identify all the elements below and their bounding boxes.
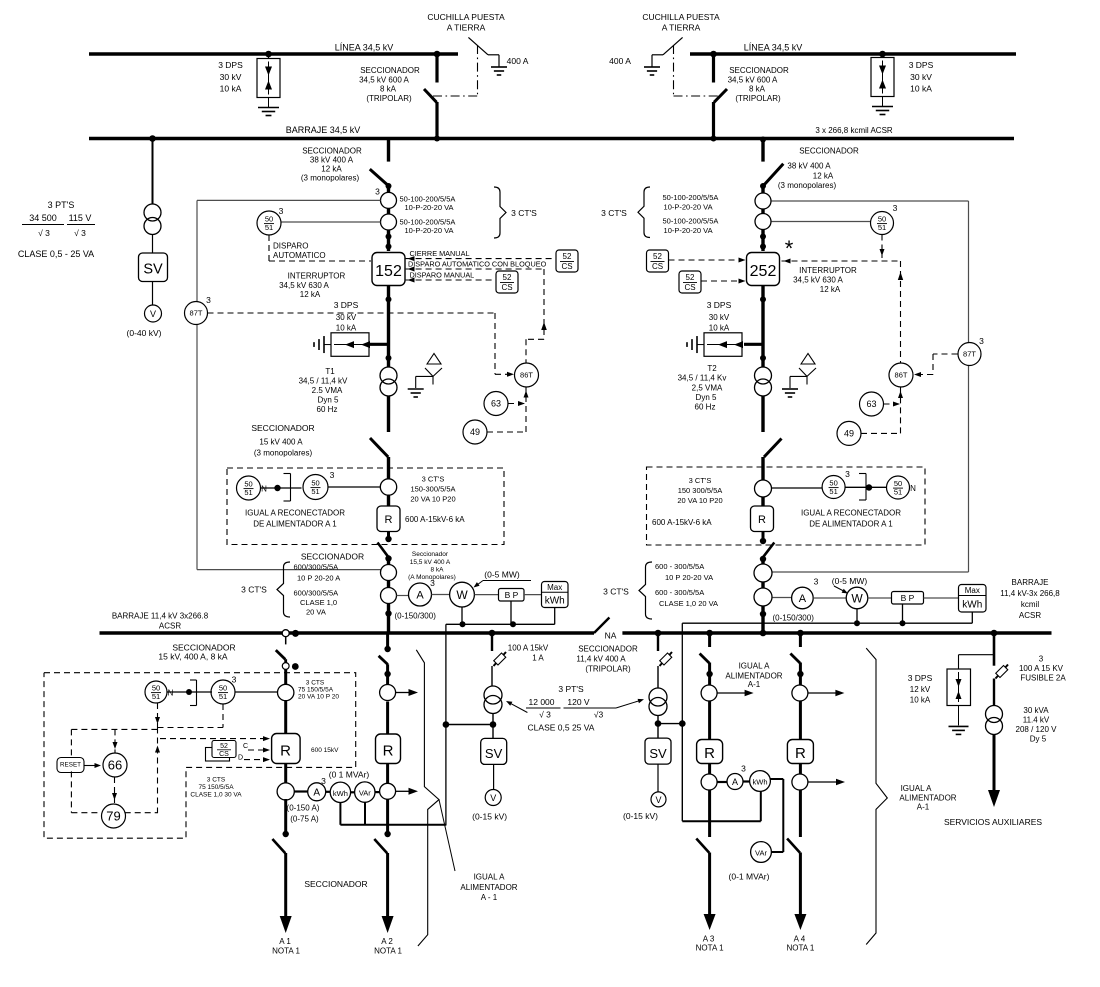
- svg-text:30 kV: 30 kV: [220, 72, 242, 82]
- svg-text:10 P 20-20 A: 10 P 20-20 A: [297, 574, 340, 583]
- svg-text:600 A-15kV-6 kA: 600 A-15kV-6 kA: [405, 515, 465, 524]
- svg-text:SECCIONADOR: SECCIONADOR: [578, 645, 638, 654]
- svg-text:R: R: [704, 745, 715, 762]
- svg-text:3: 3: [279, 206, 284, 216]
- svg-text:IGUAL A RECONECTADOR: IGUAL A RECONECTADOR: [245, 509, 345, 518]
- svg-text:66: 66: [108, 758, 122, 773]
- svg-text:kWh: kWh: [333, 789, 348, 798]
- svg-text:34,5 / 11,4 Kv: 34,5 / 11,4 Kv: [678, 374, 727, 383]
- svg-text:3 x 266,8 kcmil ACSR: 3 x 266,8 kcmil ACSR: [815, 126, 893, 135]
- svg-text:NOTA 1: NOTA 1: [272, 947, 300, 956]
- svg-text:CS: CS: [652, 262, 663, 271]
- svg-text:kWh: kWh: [753, 778, 768, 787]
- svg-text:3: 3: [375, 187, 380, 197]
- svg-text:60 Hz: 60 Hz: [695, 403, 716, 412]
- svg-text:SV: SV: [485, 746, 503, 761]
- svg-text:SECCIONADOR: SECCIONADOR: [799, 147, 859, 156]
- svg-text:N: N: [261, 485, 267, 494]
- svg-text:FUSIBLE 2A: FUSIBLE 2A: [1020, 674, 1066, 683]
- svg-text:NOTA 1: NOTA 1: [374, 947, 402, 956]
- svg-text:CLASE 0,5 25 VA: CLASE 0,5 25 VA: [528, 723, 595, 733]
- svg-text:120 V: 120 V: [567, 697, 590, 707]
- svg-text:600 15kV: 600 15kV: [311, 747, 339, 754]
- svg-text:(3 monopolares): (3 monopolares): [301, 174, 360, 183]
- svg-text:Max: Max: [965, 586, 980, 595]
- svg-text:252: 252: [750, 263, 777, 280]
- svg-text:86T: 86T: [520, 371, 533, 380]
- svg-text:600 - 300/5/5A: 600 - 300/5/5A: [655, 588, 704, 597]
- svg-text:3: 3: [321, 776, 326, 786]
- svg-text:3: 3: [1039, 655, 1044, 664]
- svg-text:CS: CS: [561, 262, 572, 271]
- svg-text:LÍNEA 34,5 kV: LÍNEA 34,5 kV: [744, 43, 803, 53]
- svg-text:3 PT'S: 3 PT'S: [48, 200, 75, 210]
- svg-text:3 DPS: 3 DPS: [707, 300, 732, 310]
- svg-text:10-P-20-20 VA: 10-P-20-20 VA: [405, 226, 454, 235]
- svg-text:3: 3: [330, 470, 335, 480]
- svg-text:R: R: [280, 743, 291, 760]
- svg-text:CLASE 1,0 20 VA: CLASE 1,0 20 VA: [659, 599, 718, 608]
- svg-text:(TRIPOLAR): (TRIPOLAR): [735, 94, 781, 103]
- svg-text:15,5 kV 400 A: 15,5 kV 400 A: [410, 559, 451, 566]
- svg-text:15 kV 400 A: 15 kV 400 A: [259, 438, 303, 447]
- svg-text:52: 52: [686, 273, 695, 282]
- svg-text:3 CT'S: 3 CT'S: [511, 208, 537, 218]
- svg-text:V: V: [655, 795, 661, 805]
- svg-text:(0-150/300): (0-150/300): [395, 612, 437, 621]
- svg-text:15 kV, 400 A, 8 kA: 15 kV, 400 A, 8 kA: [158, 652, 227, 662]
- svg-text:(TRIPOLAR): (TRIPOLAR): [366, 94, 412, 103]
- svg-text:kWh: kWh: [962, 600, 982, 611]
- svg-text:51: 51: [311, 487, 319, 496]
- svg-text:2.5 VMA: 2.5 VMA: [312, 386, 343, 395]
- svg-text:(0-150 A): (0-150 A): [287, 804, 320, 813]
- svg-text:RESET: RESET: [60, 762, 81, 769]
- svg-text:kcmil: kcmil: [1021, 600, 1039, 609]
- svg-text:75 150/5/5A: 75 150/5/5A: [198, 784, 234, 791]
- svg-text:V: V: [150, 309, 156, 319]
- svg-text:Dyn 5: Dyn 5: [318, 396, 339, 405]
- svg-text:10-P-20-20 VA: 10-P-20-20 VA: [405, 203, 454, 212]
- svg-text:79: 79: [106, 809, 120, 824]
- svg-text:CS: CS: [219, 751, 229, 758]
- svg-text:20 VA 10 P 20: 20 VA 10 P 20: [298, 694, 339, 701]
- svg-text:3 CT'S: 3 CT'S: [601, 208, 627, 218]
- svg-text:BARRAJE 11,4 kV 3x266.8: BARRAJE 11,4 kV 3x266.8: [112, 612, 209, 621]
- svg-text:115 V: 115 V: [69, 213, 92, 223]
- svg-text:VAr: VAr: [755, 849, 767, 858]
- svg-text:3 CTS: 3 CTS: [207, 777, 226, 784]
- svg-text:86T: 86T: [895, 371, 908, 380]
- svg-text:DE ALIMENTADOR A 1: DE ALIMENTADOR A 1: [253, 520, 337, 529]
- svg-text:DISPARO: DISPARO: [273, 242, 308, 251]
- svg-text:11,4 kV-3x 266,8: 11,4 kV-3x 266,8: [1000, 589, 1060, 598]
- svg-text:INTERRUPTOR: INTERRUPTOR: [288, 272, 346, 281]
- svg-text:IGUAL A: IGUAL A: [474, 873, 505, 882]
- svg-text:50-100-200/5/5A: 50-100-200/5/5A: [663, 217, 719, 226]
- svg-text:12 000: 12 000: [529, 697, 555, 707]
- svg-text:N: N: [168, 689, 174, 698]
- svg-text:AUTOMATICO: AUTOMATICO: [273, 251, 326, 260]
- svg-text:3 DPS: 3 DPS: [909, 60, 934, 70]
- svg-text:Dy 5: Dy 5: [1030, 735, 1047, 744]
- svg-text:52: 52: [563, 252, 572, 261]
- svg-text:51: 51: [244, 488, 252, 497]
- svg-text:D: D: [238, 755, 243, 762]
- svg-text:R: R: [795, 745, 806, 762]
- svg-text:34,5 / 11,4 kV: 34,5 / 11,4 kV: [299, 377, 348, 386]
- svg-text:CIERRE MANUAL: CIERRE MANUAL: [410, 249, 470, 258]
- svg-text:52: 52: [503, 273, 512, 282]
- svg-text:√3: √3: [594, 710, 604, 720]
- svg-text:2,5 VMA: 2,5 VMA: [692, 384, 723, 393]
- svg-text:51: 51: [894, 488, 902, 497]
- svg-text:INTERRUPTOR: INTERRUPTOR: [799, 266, 857, 275]
- svg-text:ALIMENTADOR: ALIMENTADOR: [460, 883, 517, 892]
- svg-text:3 CT'S: 3 CT'S: [241, 585, 267, 595]
- svg-text:SECCIONADOR: SECCIONADOR: [360, 66, 420, 75]
- svg-text:3: 3: [206, 295, 211, 305]
- svg-text:12 kV: 12 kV: [910, 685, 931, 694]
- svg-text:3: 3: [232, 675, 237, 685]
- svg-text:ACSR: ACSR: [1019, 611, 1041, 620]
- svg-text:(0-15 kV): (0-15 kV): [472, 812, 507, 822]
- svg-text:150 300/5/5A: 150 300/5/5A: [678, 486, 723, 495]
- svg-text:11.4 kV: 11.4 kV: [1023, 716, 1050, 725]
- svg-text:3: 3: [430, 578, 435, 588]
- svg-text:30 kV: 30 kV: [336, 313, 357, 322]
- svg-text:150-300/5/5A: 150-300/5/5A: [410, 485, 455, 494]
- svg-text:87T: 87T: [963, 350, 976, 359]
- svg-text:(0-1 MVAr): (0-1 MVAr): [729, 872, 770, 882]
- svg-text:R: R: [385, 514, 393, 526]
- svg-text:BARRAJE: BARRAJE: [1012, 578, 1049, 587]
- svg-text:63: 63: [866, 399, 876, 409]
- svg-text:A: A: [732, 777, 738, 787]
- svg-text:8 kA: 8 kA: [380, 85, 397, 94]
- svg-text:T2: T2: [707, 364, 717, 373]
- svg-text:49: 49: [470, 427, 480, 437]
- svg-text:A: A: [416, 590, 424, 602]
- svg-text:10-P-20-20 VA: 10-P-20-20 VA: [664, 203, 713, 212]
- svg-text:NOTA 1: NOTA 1: [696, 944, 724, 953]
- svg-text:3: 3: [893, 203, 898, 213]
- svg-text:8 kA: 8 kA: [749, 85, 766, 94]
- svg-text:10 kA: 10 kA: [910, 696, 931, 705]
- svg-text:(TRIPOLAR): (TRIPOLAR): [585, 665, 631, 674]
- svg-text:SECCIONADOR: SECCIONADOR: [729, 66, 789, 75]
- svg-text:10 kA: 10 kA: [910, 84, 932, 94]
- svg-text:600 - 300/5/5A: 600 - 300/5/5A: [655, 562, 704, 571]
- svg-text:SECCIONADOR: SECCIONADOR: [251, 423, 314, 433]
- svg-text:3 DPS: 3 DPS: [908, 673, 933, 683]
- svg-text:20 VA 10 P20: 20 VA 10 P20: [677, 496, 722, 505]
- svg-text:CUCHILLA PUESTA: CUCHILLA PUESTA: [642, 12, 720, 22]
- svg-text:IGUAL A: IGUAL A: [739, 662, 770, 671]
- svg-text:NA: NA: [605, 631, 617, 641]
- svg-text:(0-15 kV): (0-15 kV): [623, 811, 658, 821]
- svg-text:3 CT'S: 3 CT'S: [603, 587, 629, 597]
- svg-text:51: 51: [152, 692, 160, 701]
- svg-text:50-100-200/5/5A: 50-100-200/5/5A: [663, 193, 719, 202]
- svg-text:√ 3: √ 3: [74, 228, 86, 238]
- svg-text:20 VA: 20 VA: [306, 608, 326, 617]
- svg-text:34 500: 34 500: [29, 213, 57, 223]
- svg-text:A 1: A 1: [279, 937, 291, 946]
- svg-text:51: 51: [219, 692, 227, 701]
- svg-text:B P: B P: [505, 590, 519, 600]
- svg-text:A - 1: A - 1: [481, 893, 498, 902]
- svg-text:11,4 kV 400 A: 11,4 kV 400 A: [576, 655, 626, 664]
- svg-text:10 kA: 10 kA: [709, 324, 730, 333]
- svg-text:Dyn 5: Dyn 5: [696, 393, 717, 402]
- svg-text:W: W: [851, 592, 863, 606]
- svg-text:60 Hz: 60 Hz: [317, 405, 338, 414]
- svg-text:CLASE 1,0: CLASE 1,0: [300, 598, 337, 607]
- svg-text:IGUAL A RECONECTADOR: IGUAL A RECONECTADOR: [801, 509, 901, 518]
- svg-text:12 kA: 12 kA: [300, 290, 321, 299]
- svg-text:N: N: [910, 484, 916, 493]
- svg-text:SV: SV: [143, 262, 163, 278]
- svg-text:10 P 20-20 VA: 10 P 20-20 VA: [665, 573, 713, 582]
- svg-text:100 A 15 KV: 100 A 15 KV: [1019, 664, 1064, 673]
- svg-text:Seccionador: Seccionador: [412, 551, 449, 558]
- svg-text:√ 3: √ 3: [539, 710, 551, 720]
- svg-text:3: 3: [979, 336, 984, 346]
- svg-text:(0-5 MW): (0-5 MW): [832, 576, 868, 586]
- svg-text:51: 51: [878, 223, 886, 232]
- svg-text:100 A 15kV: 100 A 15kV: [508, 644, 549, 653]
- svg-text:ACSR: ACSR: [159, 622, 181, 631]
- svg-text:kWh: kWh: [545, 596, 565, 607]
- svg-text:A 3: A 3: [703, 935, 715, 944]
- svg-text:A-1: A-1: [748, 680, 761, 689]
- svg-text:W: W: [456, 588, 468, 602]
- svg-text:CS: CS: [684, 283, 695, 292]
- svg-text:CLASE 0,5 - 25 VA: CLASE 0,5 - 25 VA: [18, 249, 94, 259]
- svg-text:DISPARO MANUAL: DISPARO MANUAL: [410, 271, 475, 280]
- svg-text:V: V: [490, 793, 496, 803]
- svg-text:3 CTS: 3 CTS: [306, 680, 325, 687]
- svg-text:10-P-20-20 VA: 10-P-20-20 VA: [664, 226, 713, 235]
- svg-text:3 CT'S: 3 CT'S: [689, 476, 712, 485]
- svg-text:BARRAJE 34,5 kV: BARRAJE 34,5 kV: [286, 125, 361, 135]
- svg-text:600 A-15kV-6 kA: 600 A-15kV-6 kA: [652, 518, 712, 527]
- svg-text:12 kA: 12 kA: [321, 165, 342, 174]
- svg-text:208 / 120 V: 208 / 120 V: [1016, 725, 1058, 734]
- svg-text:Max: Max: [547, 583, 562, 592]
- svg-text:34,5 kV 600 A: 34,5 kV 600 A: [728, 76, 778, 85]
- svg-text:600/300/5/5A: 600/300/5/5A: [294, 563, 339, 572]
- svg-text:75 150/5/5A: 75 150/5/5A: [298, 687, 334, 694]
- svg-text:*: *: [785, 236, 794, 261]
- svg-text:R: R: [758, 514, 766, 526]
- svg-text:(0-40 kV): (0-40 kV): [127, 328, 162, 338]
- svg-text:LÍNEA 34,5 kV: LÍNEA 34,5 kV: [335, 43, 394, 53]
- svg-text:34,5 kV 630 A: 34,5 kV 630 A: [793, 276, 843, 285]
- svg-text:(0-75 A): (0-75 A): [290, 815, 319, 824]
- svg-text:CS: CS: [501, 283, 512, 292]
- svg-text:3 PT'S: 3 PT'S: [558, 684, 584, 694]
- svg-text:12 kA: 12 kA: [813, 172, 834, 181]
- svg-text:52: 52: [220, 743, 228, 750]
- svg-text:SECCIONADOR: SECCIONADOR: [304, 879, 367, 889]
- svg-text:A: A: [313, 788, 320, 799]
- svg-text:R: R: [383, 743, 394, 760]
- svg-text:3: 3: [814, 577, 819, 587]
- svg-text:A 4: A 4: [794, 935, 806, 944]
- svg-text:3 DPS: 3 DPS: [218, 60, 243, 70]
- svg-text:38 kV 400 A: 38 kV 400 A: [310, 156, 354, 165]
- svg-text:49: 49: [844, 429, 854, 439]
- svg-text:3 CT'S: 3 CT'S: [422, 475, 445, 484]
- svg-text:SERVICIOS AUXILIARES: SERVICIOS AUXILIARES: [944, 817, 1042, 827]
- svg-text:30 kVA: 30 kVA: [1023, 706, 1049, 715]
- svg-text:400 A: 400 A: [609, 56, 631, 66]
- svg-text:400 A: 400 A: [507, 56, 529, 66]
- svg-text:A TIERRA: A TIERRA: [662, 23, 701, 33]
- svg-text:A: A: [799, 593, 807, 605]
- svg-text:8 kA: 8 kA: [430, 567, 444, 574]
- svg-text:SECCIONADOR: SECCIONADOR: [301, 552, 364, 562]
- svg-text:(0 1 MVAr): (0 1 MVAr): [329, 770, 370, 780]
- svg-text:NOTA 1: NOTA 1: [786, 944, 814, 953]
- svg-text:30 kV: 30 kV: [910, 72, 932, 82]
- svg-text:38 kV 400 A: 38 kV 400 A: [787, 162, 831, 171]
- svg-text:A 2: A 2: [381, 937, 393, 946]
- svg-text:34,5 kV 630 A: 34,5 kV 630 A: [279, 281, 329, 290]
- svg-text:T1: T1: [325, 367, 335, 376]
- svg-text:87T: 87T: [190, 309, 203, 318]
- svg-text:30 kV: 30 kV: [709, 313, 730, 322]
- svg-text:SV: SV: [649, 746, 667, 761]
- svg-text:34,5 kV 600 A: 34,5 kV 600 A: [359, 76, 409, 85]
- svg-text:CLASE 1,0 30 VA: CLASE 1,0 30 VA: [190, 792, 242, 799]
- svg-text:600/300/5/5A: 600/300/5/5A: [294, 589, 339, 598]
- svg-text:(3 monopolares): (3 monopolares): [778, 181, 837, 190]
- svg-text:DISPARO AUTOMATICO CON BLOQUEO: DISPARO AUTOMATICO CON BLOQUEO: [408, 260, 547, 269]
- svg-text:3: 3: [741, 764, 746, 774]
- svg-text:IGUAL A: IGUAL A: [901, 784, 932, 793]
- svg-text:√ 3: √ 3: [38, 228, 50, 238]
- svg-text:10 kA: 10 kA: [336, 324, 357, 333]
- svg-text:12 kA: 12 kA: [820, 285, 841, 294]
- svg-text:B P: B P: [901, 593, 915, 603]
- svg-text:SECCIONADOR: SECCIONADOR: [302, 147, 362, 156]
- svg-text:1 A: 1 A: [532, 654, 544, 663]
- svg-text:63: 63: [491, 399, 501, 409]
- svg-text:ALIMENTADOR: ALIMENTADOR: [899, 794, 956, 803]
- svg-text:A-1: A-1: [917, 803, 930, 812]
- svg-text:CUCHILLA PUESTA: CUCHILLA PUESTA: [427, 12, 505, 22]
- svg-text:A TIERRA: A TIERRA: [447, 23, 486, 33]
- svg-text:51: 51: [829, 487, 837, 496]
- svg-text:51: 51: [265, 223, 273, 232]
- svg-text:3: 3: [845, 469, 850, 479]
- svg-text:52: 52: [653, 252, 662, 261]
- svg-text:(3 monopolares): (3 monopolares): [254, 449, 313, 458]
- svg-text:(0-150/300): (0-150/300): [773, 614, 815, 623]
- svg-text:DE ALIMENTADOR A 1: DE ALIMENTADOR A 1: [809, 520, 893, 529]
- svg-text:VAr: VAr: [359, 789, 371, 798]
- svg-text:20 VA 10 P20: 20 VA 10 P20: [410, 495, 455, 504]
- svg-text:152: 152: [375, 263, 402, 280]
- svg-text:(0-5 MW): (0-5 MW): [484, 570, 520, 580]
- svg-text:10 kA: 10 kA: [220, 84, 242, 94]
- svg-text:3 DPS: 3 DPS: [334, 300, 359, 310]
- svg-text:C: C: [243, 743, 248, 750]
